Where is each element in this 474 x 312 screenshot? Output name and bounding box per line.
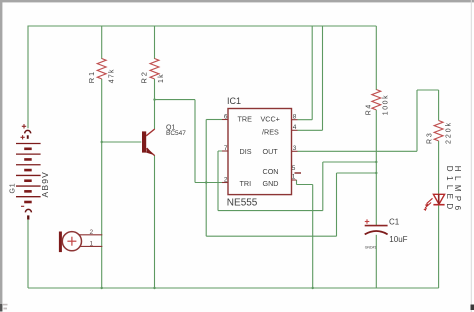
right border [471,0,472,312]
svg-text:47k: 47k [108,68,115,83]
svg-text:DIS: DIS [240,147,252,156]
wire VCC pin8 [298,26,313,120]
wire /RES pin4 [298,26,323,130]
top border [0,0,474,2]
wire R1 top [101,26,103,59]
svg-text:1: 1 [90,240,94,247]
svg-text:1: 1 [292,174,296,181]
wire Q1 base [102,141,142,143]
wire top VCC rail [28,25,376,27]
resistor R3 [434,121,443,141]
wire bottom ground bus [28,287,439,289]
wire R4 top [375,26,377,90]
wire Q1 emitter to bus [154,156,156,289]
svg-text:GND#1: GND#1 [365,245,377,249]
svg-text:TRE: TRE [238,114,253,123]
wire R2 top [154,26,156,59]
left border [0,0,2,312]
svg-text:5: 5 [292,165,296,172]
corner artifact bottom-right [471,305,474,311]
wire R1 bottom vertical to bus [101,79,103,288]
svg-text:R2: R2 [139,70,148,83]
svg-text:220k: 220k [445,121,452,144]
wire OUT pin3 loop to R3 [298,90,439,151]
svg-text:4: 4 [293,124,297,131]
wire GND pin1 to bus [297,180,313,288]
svg-text:100k: 100k [383,94,390,116]
svg-text:R4: R4 [365,103,372,115]
wire TRE-TRI tie [205,120,207,237]
svg-text:BC547: BC547 [166,130,186,137]
svg-text:8: 8 [293,114,297,121]
wire R2 bottom to collector [154,79,156,129]
svg-text:2: 2 [224,176,228,183]
op-amp/IC body IC1 NE555 [228,109,292,195]
svg-text:R3: R3 [426,131,433,144]
wire C1 bottom to bus [375,235,377,288]
corner artifact bottom-left [3,304,8,310]
wire collector loop to TRI [155,100,223,183]
svg-text:HLMP6: HLMP6 [453,166,462,215]
svg-text:G1: G1 [10,183,17,194]
IC pin stubs [222,120,301,183]
wire TRI/TRE to C1 node (staircase B) [206,173,376,236]
resistor R1 [97,59,106,79]
svg-text:IC1: IC1 [227,96,241,106]
transistor Q1 [142,129,155,156]
svg-text:3: 3 [293,145,297,152]
svg-text:GND: GND [263,179,279,188]
wire TRE pin6 [206,119,222,121]
svg-text:1k: 1k [158,73,165,83]
svg-text:AB9V: AB9V [40,171,50,198]
wire battery to bus [27,220,29,288]
svg-text:TRI: TRI [240,179,252,188]
wire R4 bottom to C1 [375,110,377,225]
svg-text:NE555: NE555 [227,198,258,209]
svg-text:VCC+: VCC+ [261,114,280,123]
capacitor C1 [365,219,388,234]
IC pin names [238,114,280,188]
svg-text:C1: C1 [389,217,400,226]
wire DIS pin7 to C1 node (staircase A) [218,151,376,211]
svg-text:6: 6 [224,113,228,120]
battery G1 [16,124,41,219]
resistor R2 [150,59,159,79]
pin numbers [224,113,297,183]
svg-text:7: 7 [224,145,228,152]
wire battery drop [27,26,29,129]
svg-text:10uF: 10uF [389,235,407,244]
svg-text:R1: R1 [87,70,96,83]
wire R3 to LED [438,141,440,194]
svg-text:CON: CON [263,167,279,176]
microphone [59,232,102,253]
svg-text:2: 2 [90,229,94,236]
resistor R4 [372,90,381,110]
wire LED to bus [438,205,440,288]
svg-text:/RES: /RES [262,128,279,137]
svg-text:OUT: OUT [263,147,279,156]
LED D1 [423,194,444,211]
